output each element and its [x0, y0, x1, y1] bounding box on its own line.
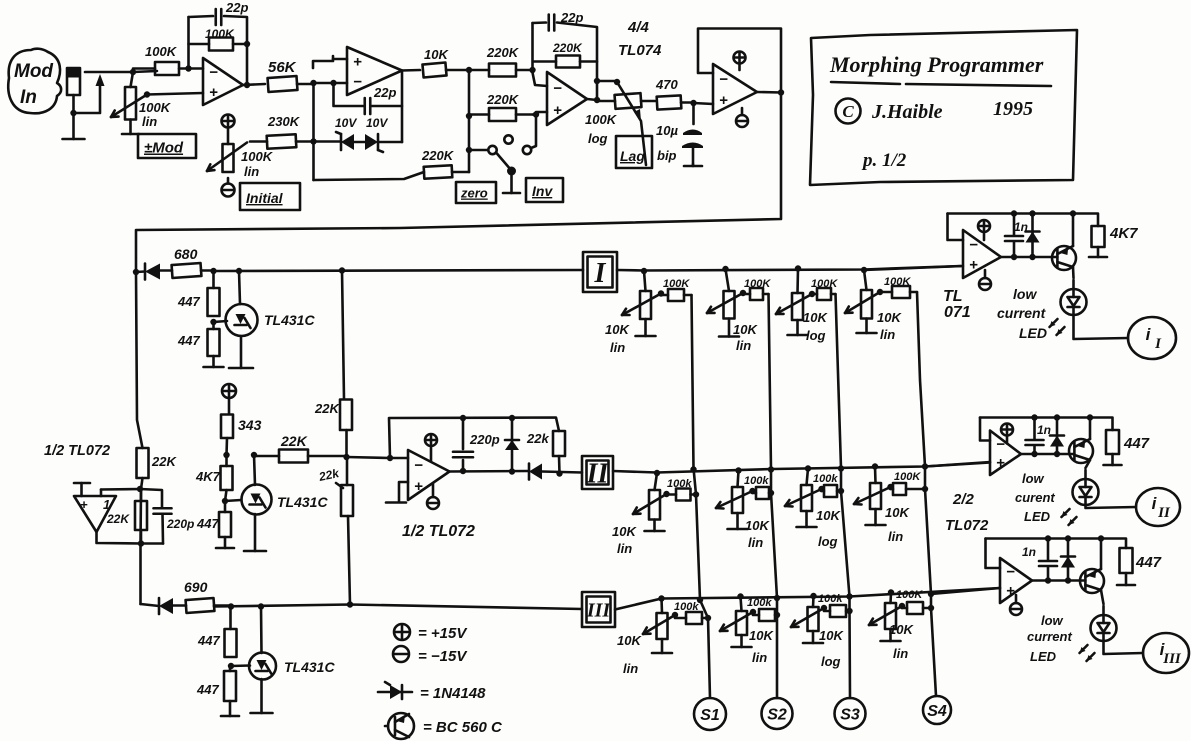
- +15V at U4: [425, 434, 437, 446]
- wire cap stem lower row II LED driver: [1033, 446, 1036, 455]
- svg-text:100k: 100k: [674, 601, 699, 613]
- wire collector to LED row II LED driver: [1084, 470, 1087, 479]
- wire resistor out row II scene pot group 4: [906, 488, 925, 491]
- svg-text:10V: 10V: [335, 116, 357, 130]
- wire to U1D plus: [694, 103, 714, 104]
- junction mod node: [130, 69, 136, 75]
- svg-text:1995: 1995: [993, 98, 1033, 120]
- scene switch bubble S4: [923, 696, 951, 724]
- svg-text:2/2: 2/2: [952, 491, 975, 508]
- wire 220K R7 to U1C plus: [533, 112, 547, 115]
- ground under R23: [229, 701, 232, 716]
- diode 1N4148 D3: [145, 264, 160, 280]
- wire bus tap row I scene pot group 2: [726, 269, 730, 291]
- svg-text:Lag: Lag: [620, 148, 645, 164]
- svg-text:1n: 1n: [1014, 220, 1028, 234]
- wire node C to U4 inverting: [347, 457, 409, 458]
- resistor 220K R7: [489, 108, 516, 121]
- +15V supply for Initial pot: [222, 115, 235, 128]
- capacitor 22p C1: [214, 9, 217, 25]
- wire resistor out row III scene pot group 1: [702, 617, 708, 620]
- ground under 4K7 row II LED driver: [1111, 454, 1114, 465]
- svg-text:Initial: Initial: [246, 190, 284, 206]
- zener bar detail D2: [378, 150, 383, 152]
- svg-text:10K: 10K: [605, 322, 630, 337]
- node III box: [582, 592, 615, 627]
- bus row I right segment: [617, 266, 961, 271]
- svg-text:low: low: [1022, 471, 1045, 486]
- wire scene column S3: [836, 294, 851, 698]
- wire left column: [136, 272, 143, 448]
- wire bus tap row II scene pot group 4: [874, 467, 877, 484]
- resistor 100K row II scene pot group 1: [676, 489, 691, 501]
- svg-text:4K7: 4K7: [195, 469, 221, 484]
- wire bus tap row III scene pot group 2: [741, 597, 742, 612]
- +15V at 343 divider: [222, 384, 236, 398]
- capacitor 22p C2: [363, 98, 366, 114]
- wire C5 stem lower: [462, 460, 465, 471]
- resistor 100K row I scene pot group 3: [817, 288, 831, 300]
- svg-text:TL431C: TL431C: [264, 312, 315, 328]
- wire left column lower: [141, 478, 143, 604]
- wire bus tap row I scene pot group 4: [864, 270, 867, 290]
- svg-text:10K: 10K: [803, 310, 828, 325]
- svg-text:100k: 100k: [744, 475, 769, 487]
- zener 10V D1: [341, 134, 354, 150]
- junction bus row II scene pot group 3: [805, 465, 811, 471]
- resistor 10K R5: [422, 63, 446, 78]
- junction TL431 ref: [210, 319, 216, 325]
- resistor 690 R21: [186, 598, 215, 613]
- ground under U3: [254, 514, 257, 551]
- potentiometer 10K row III scene pot group 2: [736, 611, 747, 635]
- zener bar detail D1: [336, 132, 341, 134]
- capacitor 22p C3: [547, 15, 550, 31]
- junction jack sleeve: [70, 110, 76, 116]
- svg-text:+: +: [353, 53, 362, 70]
- junction node A: [310, 80, 316, 86]
- junction output row II LED driver: [1031, 451, 1060, 457]
- shunt regulator TL431C U3: [242, 485, 272, 515]
- +15V row I LED driver: [978, 220, 990, 232]
- svg-text:lin: lin: [142, 114, 157, 129]
- wire LED to bubble row I LED driver: [1074, 315, 1129, 339]
- svg-text:−: −: [553, 80, 562, 97]
- resistor 220K feedback R9: [556, 56, 580, 68]
- resistor 447 R12: [208, 288, 220, 316]
- junction R15 bus III: [347, 601, 353, 607]
- svg-text:−: −: [969, 236, 978, 253]
- potentiometer 100K log Lag P3: [615, 93, 642, 109]
- wire bus tap row II scene pot group 3: [807, 469, 809, 486]
- svg-text:log: log: [818, 534, 838, 549]
- svg-text:lin: lin: [888, 529, 903, 544]
- resistor 4K7 R18: [221, 466, 233, 490]
- svg-text:+: +: [969, 257, 978, 274]
- switch lever pivot blob: [507, 167, 516, 176]
- bus row II: [613, 463, 990, 473]
- wire top rail row III LED driver: [986, 539, 1127, 549]
- resistor 100K row II scene pot group 3: [824, 485, 837, 497]
- svg-text:J.Haible: J.Haible: [871, 101, 943, 123]
- junction U1C output: [594, 78, 600, 103]
- ground row II scene pot group 4: [874, 509, 877, 525]
- capacitor 220p C5: [453, 450, 473, 453]
- svg-text:10K: 10K: [617, 633, 642, 648]
- wire D4 vertical: [511, 418, 514, 472]
- node II box: [582, 456, 613, 489]
- svg-text:220K: 220K: [486, 92, 520, 107]
- junction bus row II scene pot group 4: [872, 463, 878, 469]
- junction row I ref nodes: [210, 268, 242, 274]
- junction rail row I LED driver: [1011, 210, 1076, 216]
- svg-text:TL072: TL072: [945, 517, 989, 534]
- ground row III scene pot group 1: [661, 639, 664, 653]
- svg-text:lin: lin: [623, 661, 638, 676]
- wire 22p to right vert: [557, 23, 597, 101]
- diode 1N4148 row III LED driver: [1061, 557, 1075, 568]
- svg-text:lin: lin: [617, 541, 632, 556]
- svg-text:TL: TL: [943, 288, 963, 305]
- capacitor 220p C6: [154, 507, 172, 510]
- wire diode vertical row III LED driver: [1067, 539, 1070, 581]
- junction wiper row I scene pot group 1: [658, 290, 664, 296]
- junction U4 output taps: [460, 415, 515, 475]
- capacitor 10u bip C4: [683, 130, 702, 136]
- wire R20 to output line: [558, 456, 561, 474]
- wire resistor out row III scene pot group 4: [923, 607, 931, 610]
- ground under R13: [212, 356, 215, 367]
- resistor 4K7 row III LED driver: [1120, 548, 1133, 573]
- wire bus into + row II LED driver: [925, 462, 990, 467]
- legend -15V symbol: [393, 646, 409, 662]
- wire U5 cathode: [260, 607, 263, 654]
- resistor 100K row I scene pot group 4: [892, 286, 910, 298]
- svg-text:100k: 100k: [747, 597, 772, 609]
- junction bus row II scene pot group 2: [735, 467, 741, 473]
- wire feedback left row III LED driver: [986, 539, 1001, 569]
- svg-text:low: low: [1013, 286, 1037, 302]
- svg-text:−: −: [353, 74, 362, 91]
- svg-text:447: 447: [197, 633, 220, 648]
- potentiometer 10K row III scene pot group 3: [808, 607, 819, 631]
- wire ref to U3: [225, 500, 241, 501]
- wire zener to output: [378, 141, 402, 144]
- ground under U5: [260, 679, 263, 713]
- wire output row III LED driver: [1032, 579, 1085, 582]
- wire node A to U1B inverting: [314, 82, 348, 85]
- junction column S3: [838, 465, 853, 614]
- wire wiper to U1A non-inverting: [147, 93, 203, 95]
- svg-text:220K: 220K: [486, 45, 520, 60]
- wire U6 output loop: [97, 532, 164, 544]
- resistor 4K7 row II LED driver: [1106, 430, 1119, 454]
- svg-text:= BC 560 C: = BC 560 C: [423, 719, 503, 736]
- svg-text:22K: 22K: [151, 454, 177, 469]
- diode 1N4148 row II LED driver: [1050, 436, 1064, 447]
- wire zener line: [314, 140, 342, 143]
- resistor 100K row I scene pot group 2: [750, 288, 763, 300]
- op-amp U1D (4/4 TL074) follower: [713, 64, 757, 114]
- ground under 4K7 row I LED driver: [1097, 247, 1100, 257]
- svg-text:100k: 100k: [818, 593, 843, 605]
- resistor 22K R25: [135, 501, 147, 530]
- svg-text:100K: 100K: [205, 27, 235, 41]
- +15V row II LED driver: [1001, 424, 1013, 436]
- svg-text:+: +: [996, 455, 1005, 472]
- svg-text:−: −: [1006, 564, 1015, 581]
- svg-text:1/2 TL072: 1/2 TL072: [44, 443, 110, 459]
- -15V row III LED driver: [1010, 603, 1022, 615]
- junction inverting input U1A: [185, 65, 191, 71]
- junction node D: [223, 452, 257, 458]
- svg-text:+: +: [553, 102, 562, 119]
- wire scene column S1: [692, 295, 711, 698]
- ground row III scene pot group 2: [740, 635, 743, 647]
- wire top rail row II LED driver: [980, 418, 1113, 431]
- wire collector to LED row III LED driver: [1102, 606, 1105, 615]
- svg-text:LED: LED: [1024, 509, 1051, 524]
- junction wiper row II scene pot group 1: [663, 491, 669, 497]
- wire U1C output: [587, 99, 597, 100]
- resistor 230K R4: [267, 134, 297, 148]
- svg-text:100K: 100K: [884, 276, 911, 288]
- svg-text:+: +: [1006, 582, 1015, 599]
- wire U4 output: [450, 470, 530, 473]
- wire scene column S2: [769, 294, 778, 698]
- capacitor 1n row III LED driver: [1039, 560, 1057, 563]
- ground under R19: [224, 537, 227, 548]
- svg-text:= −15V: = −15V: [418, 648, 468, 665]
- zener 10V D2: [365, 134, 378, 150]
- junction wiper node: [144, 91, 150, 97]
- svg-text:220K: 220K: [552, 41, 583, 55]
- resistor 100K row III scene pot group 2: [759, 609, 775, 621]
- ground under 4K7 row III LED driver: [1125, 573, 1128, 585]
- svg-text:100K: 100K: [585, 112, 618, 127]
- wire top rail row I LED driver: [948, 214, 1099, 227]
- svg-text:TL431C: TL431C: [277, 494, 328, 510]
- wire 22K column upper: [342, 271, 344, 400]
- junction U1D output: [778, 89, 784, 95]
- wire diode vertical row II LED driver: [1056, 418, 1059, 455]
- junction bus row III scene pot group 3: [810, 593, 816, 599]
- svg-text:log: log: [588, 131, 608, 146]
- junction node C: [343, 454, 349, 460]
- wire feedback left row I LED driver: [948, 214, 964, 241]
- wire U1B output vertical: [401, 71, 404, 143]
- wire 22p feedback loop U1B: [334, 83, 364, 106]
- wire U1A output: [243, 84, 265, 85]
- resistor 22K R15: [341, 485, 353, 516]
- svg-text:S4: S4: [927, 703, 947, 720]
- svg-text:TL431C: TL431C: [284, 659, 335, 675]
- wire LED to bubble row III LED driver: [1104, 641, 1144, 654]
- junction column S2: [768, 466, 780, 618]
- svg-text:22K: 22K: [280, 433, 308, 449]
- wire bus into + row III LED driver: [931, 588, 1000, 594]
- svg-text:220K: 220K: [421, 148, 455, 163]
- junction 230K to node A: [310, 138, 316, 144]
- svg-text:680: 680: [174, 246, 198, 262]
- scene switch bubble S1: [694, 698, 726, 730]
- wire U2 cathode: [239, 271, 240, 304]
- potentiometer 100K lin +/-Mod P1: [125, 87, 136, 120]
- resistor 447 R23: [224, 671, 236, 701]
- svg-text:Morphing Programmer: Morphing Programmer: [829, 52, 1044, 77]
- op-amp row III LED driver: [1000, 558, 1032, 603]
- potentiometer 10K row I scene pot group 2: [724, 291, 735, 319]
- junction U1D plus node: [690, 100, 696, 106]
- wire cap stem lower row III LED driver: [1047, 567, 1050, 581]
- resistor 100K row III scene pot group 1: [686, 612, 702, 624]
- wire resistor out row I scene pot group 2: [763, 293, 769, 296]
- lag pot wiper arrow: [617, 82, 646, 165]
- capacitor 1n row I LED driver: [1005, 235, 1023, 238]
- wire node A vertical: [312, 83, 315, 180]
- svg-text:22K: 22K: [314, 401, 340, 416]
- op-amp U4 (1/2 TL072): [408, 450, 450, 500]
- wire resistor out row II scene pot group 2: [769, 492, 771, 495]
- junction column S1: [690, 466, 711, 621]
- wire resistor out row II scene pot group 3: [837, 490, 841, 493]
- svg-text:+: +: [719, 92, 728, 109]
- resistor 100K row III scene pot group 4: [907, 602, 923, 614]
- wire cap stems row III LED driver: [1047, 539, 1050, 561]
- wire R14 to node C: [345, 430, 348, 457]
- svg-text:−: −: [209, 64, 218, 81]
- junction node B lower taps: [466, 113, 472, 153]
- potentiometer 10K row I scene pot group 4: [861, 290, 872, 319]
- junction wiper row II scene pot group 4: [887, 484, 893, 490]
- junction TL431 U3 ref: [222, 498, 228, 504]
- potentiometer 10K row III scene pot group 1: [657, 613, 668, 639]
- resistor 22K R17: [279, 450, 308, 463]
- svg-text:II: II: [1157, 505, 1171, 521]
- wire Inv contact up: [531, 117, 536, 148]
- wire bus tap row II scene pot group 1: [655, 473, 658, 490]
- wire ref to TL431 U2: [214, 321, 228, 322]
- shunt regulator TL431C U5: [249, 653, 276, 680]
- svg-text:100K: 100K: [139, 100, 172, 115]
- resistor 447 R19: [219, 512, 231, 537]
- ground row II scene pot group 1: [653, 520, 656, 532]
- wire 22p to output vertical: [372, 105, 402, 108]
- svg-text:current: current: [997, 305, 1047, 321]
- svg-text:TL074: TL074: [618, 42, 662, 59]
- op-amp U6 (1/2 TL072) pointing down: [74, 496, 116, 532]
- wire 343 to node D: [225, 438, 228, 455]
- svg-text:I: I: [1154, 336, 1162, 352]
- ground under 10u cap: [692, 164, 695, 166]
- junction wiper row III scene pot group 3: [821, 605, 827, 611]
- svg-text:4/4: 4/4: [627, 19, 650, 36]
- wire R15 down to bus III: [348, 516, 350, 605]
- wire 22p fb top: [533, 21, 547, 24]
- svg-text:10K: 10K: [424, 47, 449, 62]
- wire bus tap row II scene pot group 2: [738, 471, 739, 488]
- svg-text:−: −: [996, 436, 1005, 453]
- LED row I LED driver: [1061, 289, 1087, 315]
- svg-text:100k: 100k: [667, 478, 692, 490]
- svg-text:100k: 100k: [813, 473, 838, 485]
- junction U1C inv node: [529, 67, 535, 73]
- svg-text:lin: lin: [736, 338, 751, 353]
- LED light arrows row II LED driver: [1062, 509, 1070, 517]
- copyright symbol: [836, 99, 861, 124]
- wire bus tap row I scene pot group 1: [644, 271, 646, 291]
- junction rail row III LED driver: [1045, 535, 1104, 541]
- resistor 56K R3: [268, 76, 298, 92]
- wire bus tap row III scene pot group 3: [812, 596, 815, 607]
- svg-text:= 1N4148: = 1N4148: [420, 685, 486, 702]
- junction bus row III scene pot group 1: [658, 595, 664, 601]
- wire cap stems row I LED driver: [1013, 214, 1016, 236]
- svg-text:22p: 22p: [225, 0, 248, 15]
- svg-text:lin: lin: [880, 327, 895, 342]
- bus row III left segment: [214, 605, 582, 610]
- svg-text:071: 071: [944, 304, 971, 321]
- svg-text:220p: 220p: [469, 432, 500, 447]
- -15V at U1D: [736, 115, 748, 127]
- junction 22K column top: [339, 267, 345, 273]
- ground tick U4 non-inverting: [399, 482, 408, 501]
- junction bus row III scene pot group 2: [737, 593, 743, 599]
- box +/-Mod: [138, 134, 196, 158]
- wire resistor out row I scene pot group 1: [684, 294, 692, 297]
- wire D5 to II box: [542, 472, 582, 473]
- svg-text:447: 447: [177, 333, 200, 348]
- svg-text:lin: lin: [752, 650, 767, 665]
- arrow jack normalled contact: [96, 74, 105, 86]
- bus row I left segment: [214, 270, 584, 271]
- svg-text:10K: 10K: [816, 508, 841, 523]
- svg-text:100K: 100K: [811, 278, 838, 290]
- transistor BC560C row I LED driver: [1052, 246, 1076, 270]
- output bubble iI row I LED driver: [1128, 317, 1176, 359]
- svg-text:22K: 22K: [106, 512, 130, 526]
- junction feedback right: [244, 41, 250, 88]
- resistor 22k R20: [553, 431, 565, 456]
- op-amp row II LED driver: [990, 431, 1021, 476]
- resistor 100K row II scene pot group 4: [893, 483, 906, 495]
- LED row III LED driver: [1091, 615, 1117, 641]
- svg-text:p. 1/2: p. 1/2: [861, 150, 907, 171]
- capacitor 1n row II LED driver: [1026, 439, 1044, 442]
- resistor 4K7 row I LED driver: [1092, 226, 1105, 247]
- junction wiper row III scene pot group 4: [899, 603, 905, 609]
- ground row I scene pot group 2: [728, 319, 731, 337]
- wire output row II LED driver: [1021, 453, 1074, 456]
- svg-text:+: +: [209, 84, 218, 101]
- ground row II scene pot group 3: [805, 511, 808, 527]
- title underline: [831, 82, 900, 84]
- potentiometer 10K row I scene pot group 3: [792, 293, 803, 320]
- svg-text:100K: 100K: [744, 278, 771, 290]
- resistor 100K row II scene pot group 2: [756, 487, 769, 499]
- wire jack switch contact: [74, 82, 101, 113]
- wire R6 to U1C inverting: [532, 70, 547, 86]
- potentiometer 10K row III scene pot group 4: [885, 603, 896, 629]
- wire jack tip to node: [85, 71, 157, 72]
- junction row III ref nodes: [228, 603, 264, 609]
- wire node B vertical: [468, 70, 471, 172]
- junction bus row I scene pot group 3: [795, 265, 801, 271]
- svg-text:343: 343: [238, 417, 262, 433]
- wire D3 left lead: [136, 270, 145, 273]
- svg-text:S1: S1: [700, 707, 720, 724]
- wire U4 feedback top: [389, 418, 559, 459]
